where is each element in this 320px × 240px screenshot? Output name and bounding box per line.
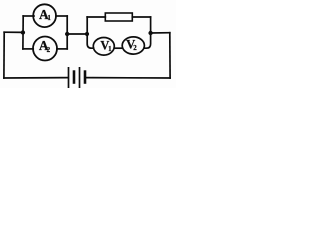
- voltmeter V2: [122, 37, 144, 54]
- svg-text:2: 2: [47, 46, 51, 54]
- wire V1-V2 link: [114, 47, 122, 49]
- wire A1 right stub: [56, 15, 67, 17]
- battery cell plate long 2: [79, 67, 81, 88]
- ammeter A1: [33, 4, 56, 27]
- wire bottom right (from battery): [86, 77, 170, 79]
- wire right rail: [169, 33, 171, 78]
- svg-text:1: 1: [47, 14, 51, 22]
- node junction dot right bracket: [65, 32, 69, 36]
- wire A2 right stub: [57, 48, 67, 50]
- wire left rail: [3, 32, 5, 78]
- svg-text:2: 2: [133, 44, 137, 52]
- voltmeter V1: [93, 38, 114, 56]
- battery cell plate long 1: [68, 67, 70, 88]
- wire right bracket vertical: [66, 16, 68, 49]
- node junction dot R-block right: [148, 31, 152, 35]
- wire middle horizontal between brackets and R-block: [67, 33, 87, 35]
- battery cell plate short 1: [73, 70, 76, 84]
- wire mid-left horizontal: [4, 31, 23, 33]
- wire R-block right vertical: [150, 17, 152, 33]
- wire A1 left stub: [23, 15, 34, 17]
- wire left bracket vertical: [22, 16, 24, 49]
- resistor R: [105, 13, 132, 21]
- wire right mid horizontal: [151, 32, 170, 34]
- wire A2 left stub: [23, 48, 33, 50]
- wire R-block left vertical with corner to V1: [87, 17, 93, 48]
- node junction dot left bracket: [21, 30, 25, 34]
- node junction dot R-block left: [85, 32, 89, 36]
- battery cell plate short 2: [84, 70, 87, 84]
- ammeter A2: [33, 37, 57, 61]
- wire V2 right stub with corner up: [144, 33, 150, 48]
- wire resistor right lead: [132, 16, 150, 18]
- wire bottom left (to battery): [4, 77, 68, 79]
- wire resistor left lead: [87, 16, 105, 18]
- svg-text:1: 1: [108, 45, 112, 53]
